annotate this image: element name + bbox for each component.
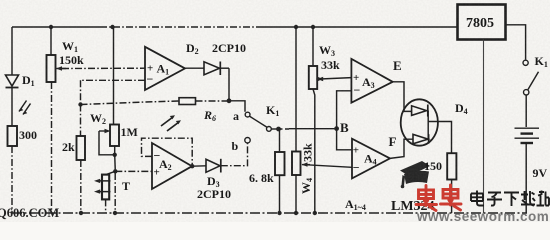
wire W3 wiper to A3 + input: [320, 78, 351, 79]
diode D2 2CP10: [185, 62, 229, 76]
node junction bottom rail at 6.8k: [277, 211, 281, 215]
wire top rail down to W2 1M: [113, 27, 115, 125]
LED pair D4: [401, 99, 438, 145]
op-amp A4: [352, 139, 390, 179]
wire W2 body bottom to junction: [114, 146, 116, 155]
wire node to resistor R6: [81, 101, 180, 105]
wire node B run: [279, 128, 290, 130]
switch K1 contact b: [245, 138, 250, 143]
potentiometer W4 33k: [292, 27, 310, 213]
wire left rail above D1: [11, 27, 13, 75]
resistor R6: [179, 98, 196, 105]
node junction on top rail at W3 column: [311, 25, 315, 29]
watermark red chong chong: [416, 185, 461, 211]
resistor 6.8k: [275, 130, 285, 214]
wire 300 to ground rail: [11, 146, 13, 213]
wire node down to 2k: [80, 105, 82, 137]
wire 150 to ground rail: [451, 180, 453, 214]
op-amp A3: [351, 59, 392, 103]
watermark cap logo: [400, 161, 430, 188]
wire bottom ground rail: [12, 212, 527, 214]
switch K1 power: [523, 60, 539, 127]
wire A2 + input from T junction: [115, 170, 152, 172]
wire A3 output E to D4: [393, 82, 412, 112]
node junction bottom rail at W3: [313, 211, 317, 215]
wire D4 cathodes out to resistor 150: [428, 122, 451, 154]
wire W3 bottom to ground rail: [313, 89, 315, 213]
node T top junction: [113, 169, 117, 173]
photodiode D1: [6, 75, 31, 115]
node junction bottom rail at 2k: [79, 211, 83, 215]
node junction on top rail at W4 column: [294, 25, 298, 29]
resistor 150: [447, 153, 456, 179]
battery 9V: [515, 128, 540, 213]
wire top rail to W1: [50, 27, 52, 55]
wire A2 feedback loop: [142, 138, 193, 166]
wire W2 junction down to T junction: [114, 155, 117, 172]
node B junction: [334, 126, 339, 131]
watermark dianzi xiazaizhan: [471, 191, 549, 207]
regulator 7805: [458, 5, 506, 40]
wire A4 output F to D4: [390, 139, 413, 158]
wire T junction column to ground rail: [114, 173, 116, 213]
scan noise texture: [0, 0, 1, 1]
wire T junction to photoresistor T: [106, 171, 115, 174]
wire node B down to A4 + input: [337, 129, 352, 150]
node 2k top junction: [78, 102, 82, 106]
wire W4 wiper to A4 inverting input: [307, 165, 352, 168]
wire A3 inverting feedback to node B: [337, 91, 352, 129]
wire W1 bottom to ground rail: [51, 82, 53, 213]
op-amp A1: [145, 47, 185, 90]
wire 7805 ground pin: [483, 40, 485, 214]
wire A1 inverting input run: [81, 79, 146, 81]
potentiometer W3 33k: [309, 27, 323, 89]
wire D2 cathode down to R6 node: [228, 68, 230, 101]
wire D3 cathode to contact b: [221, 143, 248, 166]
wire top supply rail: [12, 26, 100, 28]
node W2 bottom junction: [113, 153, 117, 157]
wire A1 inv corner down to node: [80, 80, 82, 104]
wire 2k to ground rail: [80, 160, 82, 213]
node junction on top rail at W2 column: [110, 25, 114, 29]
potentiometer W1 150k: [47, 55, 67, 82]
resistor 300: [8, 126, 18, 146]
diode D3 2CP10: [192, 159, 221, 173]
wire 7805 output to switch K1: [506, 25, 526, 60]
wire T bottom to ground rail: [105, 199, 107, 213]
switch K1 contact a: [229, 101, 278, 131]
resistor 2k: [77, 136, 86, 160]
node junction bottom rail at W4: [294, 211, 298, 215]
wire D1 cathode to resistor 300: [11, 88, 13, 127]
op-amp A2: [152, 143, 192, 189]
node junction R6 / D2: [227, 98, 232, 103]
node junction on top rail at W1: [49, 25, 53, 29]
node A2 output junction: [190, 164, 194, 168]
wire R6 to node a junction: [196, 100, 229, 102]
potentiometer W2 1M: [99, 125, 119, 155]
node junction K1 pivot / 6.8k / B: [276, 127, 281, 132]
wire W1 wiper to A1 + input: [62, 67, 145, 69]
light arrows toward A2 section: [161, 115, 181, 131]
photoresistor T: [94, 175, 111, 200]
node junction bottom rail at T column: [113, 211, 117, 215]
